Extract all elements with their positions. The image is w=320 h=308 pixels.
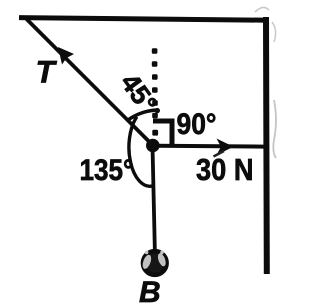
weight ball B xyxy=(141,251,167,275)
svg-text:90°: 90° xyxy=(177,108,217,141)
force line 30 N xyxy=(157,144,264,149)
angle arc 135 (ellipse) xyxy=(129,117,152,186)
svg-text:T: T xyxy=(36,54,58,90)
svg-text:30 N: 30 N xyxy=(196,152,254,187)
angle arc 45 xyxy=(128,110,158,120)
wall xyxy=(263,17,270,274)
arrowhead T xyxy=(58,47,74,65)
stray mark above 30 N xyxy=(214,151,225,157)
faint scan artifacts near corner xyxy=(255,7,269,12)
wire T line xyxy=(27,19,154,146)
svg-text:B: B xyxy=(139,276,161,308)
right angle marker xyxy=(153,121,172,144)
svg-text:135°: 135° xyxy=(80,154,134,187)
wire to weight xyxy=(153,146,156,257)
dotted vertical reference line xyxy=(152,48,158,135)
arrowhead 30 N xyxy=(217,139,234,156)
node dot xyxy=(146,139,160,153)
ceiling xyxy=(19,18,268,21)
